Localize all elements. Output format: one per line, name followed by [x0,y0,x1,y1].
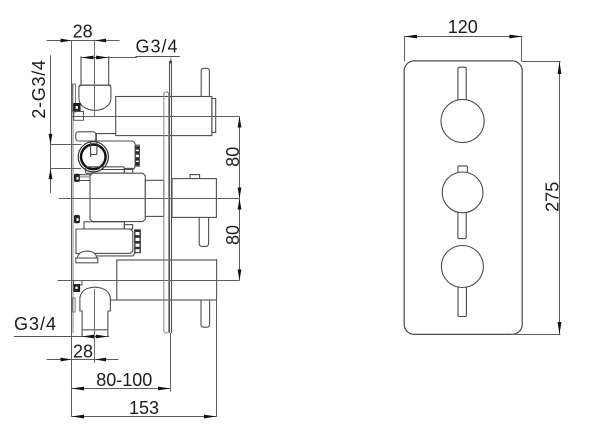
svg-text:28: 28 [73,22,93,42]
row1 lower-left step [96,134,116,141]
side port circle inner [81,145,106,170]
svg-text:153: 153 [129,398,159,418]
wall extension line left [71,40,73,417]
arrowheads [49,39,242,419]
dim 153 line [72,416,217,418]
row2 bottom bar [84,222,124,229]
row1 lug [74,112,84,121]
dim 120 line [404,36,522,38]
arrow 80 mid up [238,199,242,210]
svg-text:2-G3/4: 2-G3/4 [29,59,49,118]
knob3 stem [458,281,466,317]
svg-text:275: 275 [543,182,563,212]
row1.5 ribs [136,146,139,165]
arrow pipe-top left [81,56,94,60]
arrow 120 left [404,35,417,39]
arrow 275 top [558,62,562,75]
row3 lug [74,281,82,285]
row1 stem [201,68,209,96]
row1 lug dark [74,104,80,112]
plate boss strip [164,92,169,333]
knob3 [441,246,483,288]
svg-text:80-100: 80-100 [96,370,152,390]
top pipe collar [79,85,111,99]
2-G3/4 leader vertical [50,55,52,193]
plate back line [72,84,74,333]
side port circle outer [78,142,108,172]
dim 28 bottom line [47,359,119,361]
knob2 stem [458,207,466,239]
bottom pipe walls [82,330,108,337]
row1 centerline [72,116,240,118]
row2 centerline [59,198,240,200]
row2 neck [145,180,164,216]
valve body row3 [117,260,217,300]
dim 275 line [559,62,561,335]
dim 80-100 right ext [170,333,172,392]
row2 tab top right [190,175,200,179]
row1.5 lower-left tab [78,175,97,181]
arrow 28bot right [95,358,106,362]
2-G3/4 tick top [51,144,82,146]
boss upper left [73,84,76,112]
row1.5 bottom bar step [124,168,132,173]
dimension texts left view [14,22,243,419]
row2.5 bottom bar [76,258,98,263]
knob2 [442,172,483,213]
row2 left body [90,173,145,221]
svg-text:80: 80 [223,225,243,245]
G3/4 bottom underline leader [14,336,109,338]
knob1 [441,99,484,142]
dim 28 top line [47,40,120,42]
arrow 153 right [204,415,217,419]
row1.5 cartridge body [95,141,135,170]
elbow shoulder connector [110,299,116,301]
knob2 tab [458,166,468,178]
svg-text:G3/4: G3/4 [136,37,179,57]
dim 28 bottom right ext [94,289,96,363]
plate leader arrow tip [170,57,172,64]
row1.5 bottom bar [86,167,125,173]
arrow 80-100 left [72,387,85,391]
arrow 80 mid down [238,188,242,199]
arrow 120 right [509,35,522,39]
row2 lug lower [74,215,80,223]
row2 lug upper [74,174,80,182]
row3 lug dark [74,285,80,292]
row1.5 rib cap [135,145,139,166]
arrow 275 bottom [558,322,562,335]
row3 centerline [58,280,240,282]
spindle notch [91,142,97,157]
row2.5 rib cap [135,230,141,253]
arrow 153 left [72,415,85,419]
svg-text:120: 120 [448,17,478,37]
top inlet pipe [81,56,109,85]
arrow 28bot left [61,358,72,362]
dim 80 vertical line [239,117,241,281]
row2.5 rib notches [136,232,140,252]
row2 bottom bar step [124,225,132,229]
row2.5 cartridge [76,229,133,253]
arrow pipe-bottom right [96,335,108,339]
row3 upper-left step [96,253,135,256]
G3/4 top underline [136,56,180,58]
svg-text:80: 80 [223,147,243,167]
dim 120 right ext [521,37,523,62]
dim 275 top ext [522,61,560,63]
dim 80-100 line [72,388,171,390]
svg-text:28: 28 [73,342,93,362]
row1 right cap [212,99,216,133]
arrow 2-G3/4 up [49,169,53,180]
arrow 80-100 right [158,387,171,391]
G3/4 top leader [81,57,137,59]
trim plate edge-on [170,61,172,333]
arrow pipe-top right [96,56,109,60]
row3 stem [201,300,210,327]
knob1 stem [458,67,466,105]
bottom outlet elbow [80,287,111,330]
row2 lug upper speck [76,177,78,180]
dim 275 bottom ext [510,334,561,336]
row2 lug lower speck [76,218,78,221]
top pipe funnel bottom [79,99,111,110]
2-G3/4 tick bottom [51,168,82,170]
valve body row1 [116,97,212,136]
boss lower left [73,298,76,312]
arrow 28top right [95,39,106,43]
arrow 80 top up [238,117,242,128]
arrow 2-G3/4 down [49,134,53,145]
row2 right body [172,179,216,218]
arrow pipe-bottom left [82,335,94,339]
row3 right extension line [216,259,218,417]
bottom pipe end line [82,329,108,331]
arrow 80 bottom down [238,270,242,281]
dim 28 top right ext [94,41,96,117]
trim plate front view [404,61,522,335]
row2.5 dome below [77,251,96,258]
dim 120 left ext [404,37,406,62]
arrow 28top left [61,39,72,43]
row1.5 tab above circle [76,132,96,141]
svg-text:G3/4: G3/4 [14,314,57,334]
row2 stem [199,217,208,246]
row2 lug upper link [80,176,90,178]
